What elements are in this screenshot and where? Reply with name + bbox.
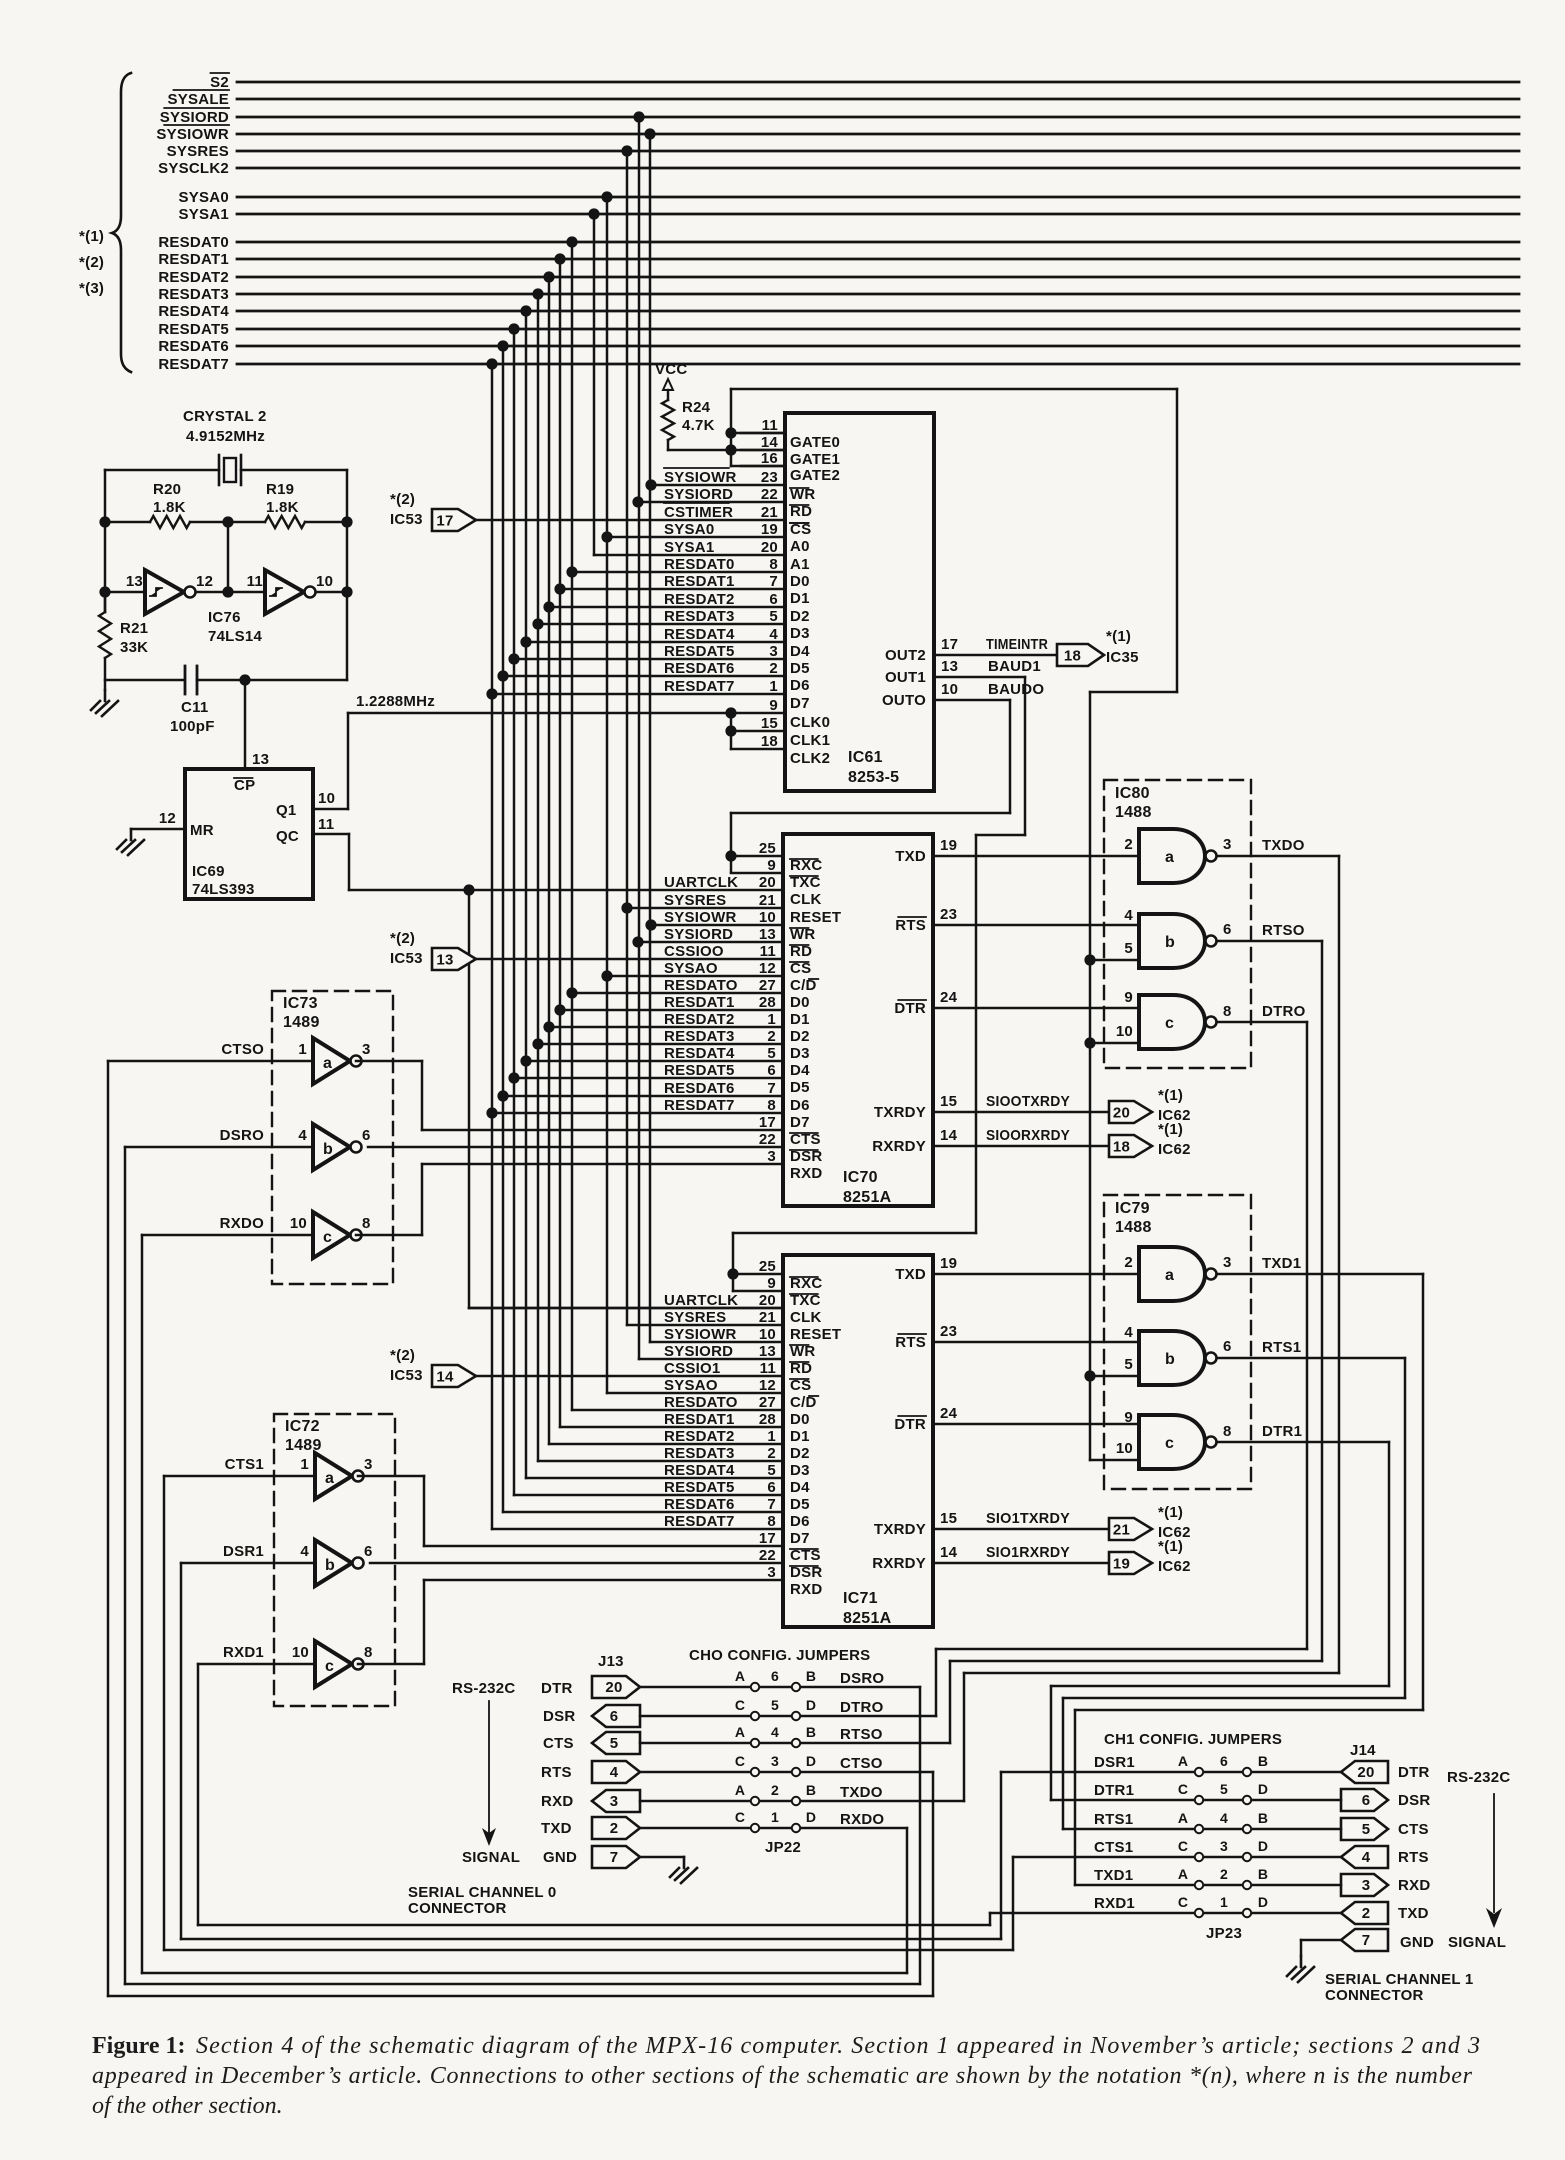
- svg-text:B: B: [1258, 1810, 1268, 1826]
- svg-text:DSRO: DSRO: [840, 1670, 884, 1687]
- svg-text:SYSALE: SYSALE: [167, 91, 229, 108]
- svg-text:7: 7: [767, 1496, 776, 1513]
- svg-text:RESDAT4: RESDAT4: [664, 626, 735, 643]
- wire IC71 RXD from IC72c: [424, 1579, 783, 1582]
- pin 11 CS of IC70: [664, 942, 811, 977]
- svg-text:CTS: CTS: [1398, 1821, 1429, 1838]
- svg-text:RESDAT2: RESDAT2: [664, 1428, 735, 1445]
- wire bus RESDAT6: [158, 338, 1519, 355]
- svg-text:B: B: [806, 1668, 816, 1684]
- buffer IC72b pins 4-6 DSR1: [181, 1540, 373, 1586]
- svg-text:GATE2: GATE2: [790, 467, 840, 484]
- jumper block JP23 CH1 CONFIG. JUMPERS: [1104, 1731, 1282, 1942]
- svg-text:100pF: 100pF: [170, 718, 215, 735]
- svg-text:8: 8: [1223, 1003, 1232, 1020]
- pin 15 TXRDY of IC70 SIOOTXRDY: [874, 1093, 1109, 1121]
- wire SYSRES vertical drop: [621, 145, 632, 1325]
- pin 15 CLK1 of IC61: [761, 715, 830, 749]
- svg-text:IC70: IC70: [843, 1169, 878, 1186]
- svg-text:2: 2: [1220, 1866, 1228, 1882]
- svg-text:D5: D5: [790, 1079, 810, 1096]
- svg-text:8: 8: [1223, 1423, 1232, 1440]
- svg-text:R21: R21: [120, 620, 148, 637]
- tag *(2) IC53 pin 17 CSTIMER source: [390, 491, 476, 531]
- svg-text:*(1): *(1): [79, 228, 104, 245]
- pin 11 CS of IC71: [664, 1359, 811, 1394]
- gate IC79b pins 4,5-6 RTS1: [1084, 1324, 1405, 1385]
- wire SYSIORD vertical drop: [633, 111, 644, 1359]
- svg-text:CLK1: CLK1: [790, 732, 830, 749]
- svg-text:CSTIMER: CSTIMER: [664, 504, 733, 521]
- svg-text:11: 11: [760, 943, 776, 960]
- pin 21 RESET of IC70: [664, 892, 841, 926]
- wire SYSA0 vertical drop: [601, 191, 612, 1393]
- timer IC61 8253-5: [785, 413, 934, 791]
- pin 17 CTS of IC70: [759, 1114, 821, 1148]
- svg-text:RESDAT1: RESDAT1: [664, 573, 735, 590]
- svg-text:DTR1: DTR1: [1262, 1423, 1302, 1440]
- svg-text:17: 17: [436, 513, 453, 530]
- pin 11 GATE0 of IC61: [741, 417, 840, 451]
- svg-text:RESDAT1: RESDAT1: [158, 251, 229, 268]
- wire RESDAT5 vertical drop: [508, 323, 519, 1495]
- svg-text:RESDAT6: RESDAT6: [158, 338, 229, 355]
- svg-text:6: 6: [1362, 1792, 1371, 1809]
- UART IC70 8251A: [783, 834, 933, 1206]
- gate IC79a pins 2-3 TXD1: [1124, 1247, 1423, 1301]
- svg-text:8: 8: [767, 1513, 776, 1530]
- wire bus SYSCLK2: [158, 160, 1519, 177]
- svg-text:SIOOTXRDY: SIOOTXRDY: [986, 1093, 1070, 1110]
- svg-text:9: 9: [1124, 989, 1133, 1006]
- svg-text:CH1 CONFIG. JUMPERS: CH1 CONFIG. JUMPERS: [1104, 1731, 1282, 1748]
- wire RESDAT2 vertical drop: [543, 271, 554, 1444]
- svg-text:D: D: [806, 1697, 816, 1713]
- svg-text:DSR1: DSR1: [1094, 1754, 1135, 1771]
- svg-text:*(2): *(2): [390, 1347, 415, 1364]
- svg-text:B: B: [806, 1724, 816, 1740]
- svg-text:D7: D7: [790, 695, 810, 712]
- svg-text:UARTCLK: UARTCLK: [664, 874, 738, 891]
- svg-text:*(1): *(1): [1158, 1121, 1183, 1138]
- pin 7 of connector J13: [592, 1846, 640, 1868]
- svg-text:3: 3: [1223, 836, 1232, 853]
- svg-text:RXRDY: RXRDY: [872, 1555, 926, 1572]
- jumper row A-4-B RTS1 of JP23: [1063, 1810, 1341, 1833]
- svg-text:18: 18: [1064, 648, 1081, 665]
- svg-text:1.2288MHz: 1.2288MHz: [356, 693, 435, 710]
- wire IC70 RESET from SYSRES: [621, 902, 783, 913]
- svg-text:c: c: [1165, 1435, 1174, 1452]
- wire oscillator left rail: [99, 470, 110, 612]
- tag 19 IC62 *(1) SIO1RXRDY destination: [1109, 1538, 1191, 1575]
- svg-text:appeared in December’s article: appeared in December’s article. Connecti…: [92, 2063, 1473, 2089]
- wire bus SYSRES: [167, 143, 1519, 160]
- svg-text:5: 5: [1220, 1781, 1228, 1797]
- svg-text:DTR: DTR: [541, 1680, 573, 1697]
- svg-text:RESDAT7: RESDAT7: [664, 1513, 735, 1530]
- svg-text:BAUDO: BAUDO: [988, 681, 1044, 698]
- pin 7 D1 of IC61: [554, 573, 809, 607]
- svg-text:D4: D4: [790, 1479, 810, 1496]
- svg-text:D4: D4: [790, 1062, 810, 1079]
- UART IC71 8251A: [783, 1255, 933, 1627]
- pin 4 of connector J14: [1341, 1846, 1388, 1868]
- svg-text:GND: GND: [543, 1849, 577, 1866]
- svg-text:a: a: [1165, 849, 1174, 866]
- svg-text:S2: S2: [210, 74, 229, 91]
- svg-text:c: c: [1165, 1015, 1174, 1032]
- svg-text:RTS: RTS: [895, 1334, 926, 1351]
- svg-text:14: 14: [436, 1369, 454, 1386]
- pin 17 OUT2 of IC61 TIMEINTR: [885, 636, 1057, 664]
- svg-text:13: 13: [759, 926, 776, 943]
- svg-text:23: 23: [940, 906, 957, 923]
- svg-text:22: 22: [759, 1131, 776, 1148]
- svg-text:GATE1: GATE1: [790, 451, 840, 468]
- svg-text:*(2): *(2): [390, 930, 415, 947]
- node CLK0 junction: [725, 707, 736, 749]
- svg-text:21: 21: [759, 1309, 776, 1326]
- svg-text:TXD1: TXD1: [1094, 1867, 1133, 1884]
- svg-text:GND: GND: [1400, 1934, 1434, 1951]
- svg-text:13: 13: [252, 751, 269, 768]
- svg-text:RTS1: RTS1: [1262, 1339, 1301, 1356]
- svg-text:14: 14: [940, 1127, 958, 1144]
- svg-text:CTSO: CTSO: [840, 1755, 883, 1772]
- wire RS-232C pointer arrow J13: [482, 1701, 496, 1846]
- svg-text:7: 7: [1362, 1932, 1371, 1949]
- svg-text:RESDATO: RESDATO: [664, 1394, 738, 1411]
- svg-text:7: 7: [610, 1849, 619, 1866]
- svg-text:IC62: IC62: [1158, 1141, 1191, 1158]
- svg-text:9: 9: [767, 857, 776, 874]
- svg-text:10: 10: [759, 1326, 776, 1343]
- wire RTS0 run to jumpers: [950, 941, 1322, 1743]
- svg-text:D: D: [1258, 1838, 1268, 1854]
- svg-text:22: 22: [761, 486, 778, 503]
- svg-text:20: 20: [1113, 1105, 1130, 1122]
- svg-text:19: 19: [940, 837, 957, 854]
- wire IC71 C/D from SYSA0: [607, 1392, 783, 1395]
- svg-text:JP22: JP22: [765, 1839, 801, 1856]
- svg-text:28: 28: [759, 994, 776, 1011]
- jumper row C-1-D RXDO of JP22: [640, 1809, 907, 1832]
- svg-text:RS-232C: RS-232C: [452, 1680, 515, 1697]
- wire bus RESDAT7: [158, 356, 1519, 373]
- pin 22 DSR of IC71: [759, 1547, 823, 1581]
- svg-text:1.8K: 1.8K: [266, 499, 299, 516]
- pin 3 RXD of IC70: [767, 1148, 822, 1182]
- svg-text:CTS: CTS: [543, 1735, 574, 1752]
- caption Figure 1: [92, 2033, 1480, 2119]
- pin 22 RD of IC61: [632, 485, 812, 520]
- pin 9 TXC of IC70: [767, 857, 820, 891]
- svg-text:1: 1: [767, 1428, 776, 1445]
- svg-text:RXDO: RXDO: [840, 1811, 884, 1828]
- wire IC69 QC output UARTCLK: [313, 816, 783, 890]
- svg-text:CTSO: CTSO: [221, 1041, 264, 1058]
- wire oscillator right rail: [341, 470, 352, 680]
- svg-text:10: 10: [316, 573, 333, 590]
- pin 2 D3 of IC71: [664, 1445, 810, 1479]
- pin 2 D6 of IC61: [497, 660, 809, 694]
- svg-text:CSSIO1: CSSIO1: [664, 1360, 721, 1377]
- pin 4 of connector J13: [592, 1761, 640, 1783]
- svg-text:25: 25: [759, 1258, 776, 1275]
- svg-text:7: 7: [769, 573, 778, 590]
- svg-text:4: 4: [769, 626, 778, 643]
- wire BAUD0 route to IC70 RXC/TXC: [725, 700, 1010, 872]
- svg-text:SYSIOWR: SYSIOWR: [156, 126, 229, 143]
- pin 3 RXD of IC71: [767, 1564, 822, 1598]
- svg-text:SYSIOWR: SYSIOWR: [664, 1326, 737, 1343]
- svg-text:C: C: [735, 1753, 745, 1769]
- wire DSR1 return from jumpers: [181, 1563, 1001, 1939]
- wire RS-232C pointer arrow J14: [1486, 1794, 1502, 1928]
- wire TXD1 run to jumpers: [1075, 1274, 1423, 1885]
- resistor R19 1.8K: [265, 481, 347, 528]
- svg-text:TXD: TXD: [541, 1820, 572, 1837]
- svg-text:1488: 1488: [1115, 1219, 1152, 1236]
- svg-text:SYSA0: SYSA0: [664, 521, 714, 538]
- svg-text:D: D: [1258, 1894, 1268, 1910]
- pin 25 RXC of IC71: [759, 1258, 823, 1292]
- pin 5 of connector J14: [1341, 1818, 1388, 1840]
- pin 20 CLK of IC71: [664, 1292, 822, 1326]
- pin 24 DTR of IC71: [894, 1405, 1139, 1433]
- svg-text:D5: D5: [790, 1496, 810, 1513]
- wire bus SYSIOWR: [156, 125, 1519, 143]
- svg-text:A: A: [1178, 1866, 1188, 1882]
- svg-text:RXD1: RXD1: [1094, 1895, 1135, 1912]
- pin 6 D5 of IC71: [664, 1479, 810, 1513]
- svg-text:D0: D0: [790, 573, 810, 590]
- wire gate-enable run to 1488 inputs: [731, 389, 1177, 1460]
- pin 2 of connector J13: [592, 1817, 640, 1839]
- buffer IC73b pins 4-6 DSR0: [125, 1124, 371, 1170]
- node *(3) other-section tag: [79, 280, 104, 297]
- svg-text:11: 11: [247, 573, 263, 590]
- pin 12 C/D of IC70: [664, 960, 818, 994]
- svg-text:IC80: IC80: [1115, 785, 1150, 802]
- buffer IC73a pins 1-3 CTS0: [108, 1038, 422, 1130]
- svg-text:14: 14: [940, 1544, 958, 1561]
- svg-text:8253-5: 8253-5: [848, 769, 899, 786]
- pin 23 WR of IC61: [645, 468, 815, 503]
- svg-text:a: a: [323, 1055, 332, 1072]
- svg-text:3: 3: [771, 1753, 779, 1769]
- wire IC70 C/D from SYSA0: [601, 970, 783, 981]
- svg-text:8: 8: [769, 556, 778, 573]
- pin 15 TXRDY of IC71 SIO1TXRDY: [874, 1510, 1109, 1538]
- svg-text:RESDAT5: RESDAT5: [664, 1479, 735, 1496]
- svg-text:6: 6: [1223, 1338, 1232, 1355]
- svg-text:SERIAL CHANNEL 0: SERIAL CHANNEL 0: [408, 1884, 556, 1901]
- svg-text:JP23: JP23: [1206, 1925, 1242, 1942]
- power VCC: [655, 361, 687, 400]
- svg-text:SYSRES: SYSRES: [664, 892, 726, 909]
- svg-text:6: 6: [767, 1062, 776, 1079]
- wire RESDAT3 vertical drop: [532, 288, 543, 1461]
- svg-text:IC73: IC73: [283, 995, 318, 1012]
- svg-text:OUTO: OUTO: [882, 692, 926, 709]
- svg-text:14: 14: [761, 434, 779, 451]
- svg-text:19: 19: [761, 521, 778, 538]
- pin 3 D5 of IC61: [508, 643, 809, 677]
- pin 5 D4 of IC71: [664, 1462, 810, 1496]
- svg-text:6: 6: [362, 1127, 371, 1144]
- svg-text:2: 2: [767, 1445, 776, 1462]
- svg-text:4: 4: [610, 1764, 619, 1781]
- svg-text:3: 3: [1220, 1838, 1228, 1854]
- jumper row A-6-B DSRO of JP22: [640, 1668, 920, 1691]
- svg-text:*(2): *(2): [79, 254, 104, 271]
- svg-text:6: 6: [364, 1543, 373, 1560]
- pin 28 D1 of IC71: [664, 1411, 810, 1445]
- pin 6 D2 of IC61: [543, 591, 809, 625]
- svg-text:D1: D1: [790, 1428, 810, 1445]
- svg-text:OUT1: OUT1: [885, 669, 926, 686]
- gate IC80b pins 4,5-6 RTS0: [1084, 907, 1322, 968]
- svg-text:74LS393: 74LS393: [192, 881, 255, 898]
- wire CLK2 stub: [731, 748, 785, 751]
- resistor R24 4.7K pull-up: [662, 399, 731, 450]
- svg-text:RTSO: RTSO: [1262, 922, 1305, 939]
- wire CTS1 return from jumpers: [164, 1476, 1013, 1950]
- ground at J13 signal gnd: [640, 1857, 697, 1883]
- resistor R20 1.8K: [105, 481, 265, 528]
- pin 21 RESET of IC71: [664, 1309, 841, 1343]
- pin 13 RD of IC70: [664, 925, 812, 960]
- svg-text:RESDAT4: RESDAT4: [158, 303, 229, 320]
- svg-text:RESDAT6: RESDAT6: [664, 660, 735, 677]
- svg-text:SYSA1: SYSA1: [664, 539, 714, 556]
- svg-text:10: 10: [759, 909, 776, 926]
- svg-text:B: B: [806, 1782, 816, 1798]
- pin 7 D6 of IC70: [664, 1080, 810, 1114]
- svg-text:RESDAT3: RESDAT3: [664, 1445, 735, 1462]
- jumper row A-2-B TXDO of JP22: [640, 1782, 964, 1805]
- svg-text:b: b: [325, 1557, 335, 1574]
- wire IC70 RXC/TXC tie: [731, 856, 783, 873]
- gate IC80c pins 9,10-8 DTR0: [1084, 989, 1307, 1049]
- svg-text:RTS: RTS: [895, 917, 926, 934]
- svg-text:22: 22: [759, 1547, 776, 1564]
- svg-text:D3: D3: [790, 625, 810, 642]
- wire IC69 Q1 output 1.2288MHz: [313, 693, 785, 809]
- pin 19 TXD of IC71: [895, 1255, 1139, 1283]
- svg-text:D0: D0: [790, 1411, 810, 1428]
- svg-text:R24: R24: [682, 399, 711, 416]
- svg-text:UARTCLK: UARTCLK: [664, 1292, 738, 1309]
- svg-text:DTR: DTR: [894, 1416, 926, 1433]
- wire IC70 RXD from IC73c: [422, 1163, 783, 1166]
- buffer IC72c pins 10-8 RXD1: [198, 1580, 424, 1687]
- svg-text:C: C: [735, 1809, 745, 1825]
- capacitor C11 100pF: [105, 666, 347, 735]
- svg-text:TXD: TXD: [1398, 1905, 1429, 1922]
- svg-text:17: 17: [941, 636, 958, 653]
- wire BAUD1 route to IC71 RXC/TXC: [727, 677, 1025, 1291]
- svg-text:10: 10: [292, 1644, 309, 1661]
- inverter IC76a 74LS14 pins 13-12: [105, 570, 213, 614]
- ground at J14 signal gnd: [1287, 1940, 1341, 1982]
- svg-text:Section 4 of the schematic dia: Section 4 of the schematic diagram of th…: [196, 2033, 1480, 2059]
- jumper row C-3-D CTS1 of JP23: [1013, 1838, 1341, 1861]
- svg-text:15: 15: [761, 715, 778, 732]
- wire IC70 WR: [645, 919, 783, 930]
- svg-text:4: 4: [1220, 1810, 1228, 1826]
- svg-text:IC53: IC53: [390, 511, 423, 528]
- svg-text:1: 1: [300, 1456, 309, 1473]
- pin 17 CTS of IC71: [759, 1530, 821, 1564]
- svg-text:8251A: 8251A: [843, 1610, 892, 1627]
- svg-text:A1: A1: [790, 556, 810, 573]
- svg-text:1: 1: [769, 678, 778, 695]
- wire bus SYSA0: [179, 189, 1519, 206]
- node CLK1 junction: [725, 725, 785, 736]
- svg-text:25: 25: [759, 840, 776, 857]
- wires IC71 data bus D0-D7: [492, 1410, 783, 1529]
- wire SYSIOWR vertical drop: [644, 128, 655, 1342]
- svg-text:11: 11: [762, 417, 778, 434]
- wire IC71 DSR from IC72b: [370, 1562, 783, 1565]
- wire resistor midpoint to inverter junction: [222, 516, 233, 597]
- svg-text:A0: A0: [790, 538, 810, 555]
- svg-text:RESDAT0: RESDAT0: [158, 234, 229, 251]
- wire IC71 RXC/TXC tie: [733, 1274, 783, 1291]
- svg-text:12: 12: [759, 1377, 776, 1394]
- svg-text:RXD1: RXD1: [223, 1644, 264, 1661]
- wire GATE0/1/2 tie: [725, 389, 785, 466]
- svg-text:CLK: CLK: [790, 891, 822, 908]
- svg-text:2: 2: [767, 1028, 776, 1045]
- svg-text:SYSIORD: SYSIORD: [664, 486, 733, 503]
- svg-text:74LS14: 74LS14: [208, 628, 262, 645]
- svg-text:20: 20: [605, 1679, 622, 1696]
- svg-text:IC76: IC76: [208, 609, 241, 626]
- svg-text:*(3): *(3): [79, 280, 104, 297]
- svg-text:C: C: [735, 1697, 745, 1713]
- wire IC71 RD: [639, 1358, 783, 1361]
- wire bus RESDAT2: [158, 269, 1519, 286]
- svg-text:TXDO: TXDO: [1262, 837, 1305, 854]
- svg-text:TXD1: TXD1: [1262, 1255, 1301, 1272]
- pin 6 D5 of IC70: [664, 1062, 810, 1096]
- svg-text:CSSIOO: CSSIOO: [664, 943, 724, 960]
- svg-text:2: 2: [610, 1820, 619, 1837]
- connector J14 serial channel 1: [1325, 1742, 1510, 2004]
- wire RXD0 return from jumpers: [142, 1235, 907, 1973]
- pin 4 D4 of IC61: [520, 626, 810, 660]
- svg-text:SYSIOWR: SYSIOWR: [664, 909, 737, 926]
- wire IC71 CLK from UARTCLK: [469, 1307, 783, 1310]
- pin 5 of connector J13: [592, 1732, 640, 1754]
- wire IC70 DSR from IC73b: [368, 1146, 783, 1149]
- svg-text:RTSO: RTSO: [840, 1726, 883, 1743]
- svg-text:D3: D3: [790, 1045, 810, 1062]
- pin 8 D7 of IC71: [664, 1513, 810, 1547]
- svg-text:4: 4: [1362, 1849, 1371, 1866]
- svg-text:RXD: RXD: [790, 1165, 822, 1182]
- svg-text:4: 4: [1124, 907, 1133, 924]
- wire bus RESDAT0: [158, 234, 1519, 251]
- tag 18 IC62 *(1) SIO0RXRDY destination: [1109, 1121, 1191, 1158]
- svg-text:c: c: [323, 1229, 332, 1246]
- svg-text:of the other section.: of the other section.: [92, 2093, 283, 2119]
- line driver IC80 1488 dashed outline: [1104, 780, 1251, 1068]
